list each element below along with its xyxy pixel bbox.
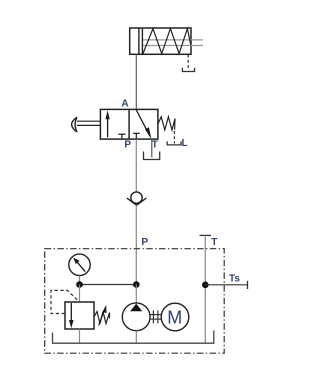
svg-text:L: L [181,138,187,149]
svg-text:P: P [124,140,131,151]
wire P: valve to check valve [135,139,137,192]
pump P1 [122,303,150,331]
relief valve RV1 body [65,302,94,329]
valve right blocked port P [133,133,140,139]
cylinder C1 body [130,28,191,54]
wire: pump suction to tank line [135,331,137,344]
wire T: terminal to tank line [204,235,206,343]
junction node (Ts branch) [202,282,209,289]
relief valve adjustment arrow [99,311,105,326]
Ts branch line [205,284,247,286]
relief valve pilot line (dashed) [51,290,79,313]
wire P: check valve to junction [135,205,137,284]
junction manifold line [80,284,137,286]
svg-text:T: T [211,237,217,248]
svg-text:A: A [121,99,128,110]
svg-text:Ts: Ts [229,274,240,285]
wire: junction to pump [135,285,137,304]
svg-text:T: T [152,140,158,151]
junction node (pump line) [133,281,140,288]
power unit enclosure [45,249,225,354]
valve T port line [151,139,153,157]
cylinder drain dashed line [187,54,189,68]
wire: junction to relief valve [79,285,81,303]
valve push button actuator [77,121,100,125]
valve left blocked port [118,134,125,139]
cylinder piston rod [143,40,203,46]
wire: relief valve drain to tank line [79,329,81,343]
cylinder return spring [143,29,191,54]
check valve [131,192,142,203]
relief valve flow arrow [70,303,72,321]
valve tank symbol [144,152,160,160]
T port terminal [200,234,212,236]
coupling shaft pump-motor [150,310,161,323]
valve leak drain tank symbol [167,141,181,145]
wire: gauge to junction [79,276,81,285]
tank line (reservoir) [53,330,214,343]
cylinder piston [139,28,143,54]
wire A: cylinder to valve [135,54,137,109]
motor M1 [161,303,189,331]
valve leak drain dashed line [173,131,175,144]
junction node (gauge branch) [76,281,83,288]
valve right position A-T path [136,110,150,136]
valve left position flow arrow [107,114,109,137]
pressure gauge [69,254,90,275]
svg-text:M: M [167,308,182,328]
valve V1 body [100,109,157,139]
valve return spring [158,117,175,130]
relief valve spring [94,312,110,324]
cylinder drain tank symbol [182,68,194,72]
Ts terminal bar [247,281,249,289]
svg-text:P: P [141,237,148,248]
